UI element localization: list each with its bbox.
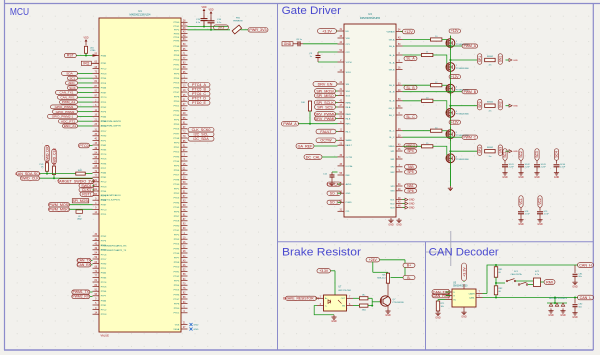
MCU U1 body <box>99 18 181 332</box>
FET column rail <box>449 36 451 187</box>
resistor R61 74K <box>387 271 389 274</box>
bulk gnd <box>539 218 541 220</box>
svg-text:SC1: SC1 <box>503 151 507 158</box>
gnd under C81 <box>574 280 576 282</box>
left lower labels <box>296 144 314 149</box>
svg-text:SL_A: SL_A <box>406 57 415 61</box>
gnd under R71 <box>437 311 439 313</box>
svg-text:PTF6: PTF6 <box>174 212 180 214</box>
svg-text:PTD7: PTD7 <box>174 175 180 177</box>
wire gate resistor to M2 gate <box>433 55 447 67</box>
svg-text:GND: GND <box>194 329 199 331</box>
svg-text:VDRAIN: VDRAIN <box>387 30 395 33</box>
wire R62 R63 join to gate <box>368 297 372 299</box>
svg-text:PTG1: PTG1 <box>173 26 179 28</box>
svg-text:GND: GND <box>513 106 518 108</box>
svg-text:RST: RST <box>67 54 74 58</box>
net label RMI <box>544 280 555 285</box>
power mosfet M2 <box>446 63 455 72</box>
series resistor R15 on SWD row <box>76 172 86 175</box>
net label SWDIO <box>79 183 94 188</box>
svg-text:MCU: MCU <box>10 7 29 18</box>
svg-text:PTH5: PTH5 <box>174 248 180 250</box>
svg-text:GPIO_PWM2: GPIO_PWM2 <box>56 110 75 114</box>
wire PWM_A long <box>298 123 338 125</box>
svg-text:GND: GND <box>560 314 566 317</box>
svg-text:PWM_B: PWM_B <box>464 90 477 94</box>
svg-text:CAS-220TA: CAS-220TA <box>511 273 523 276</box>
svg-text:GND: GND <box>537 223 543 226</box>
vertical net label SWD_DIO <box>45 145 49 162</box>
svg-text:PTG7: PTG7 <box>173 92 179 94</box>
svg-text:SC2: SC2 <box>519 151 523 158</box>
wire gate resistor to M4 gate <box>433 101 447 113</box>
vertical net label SC1 <box>503 149 507 161</box>
svg-text:PTG0: PTG0 <box>173 184 179 186</box>
svg-text:PTA4: PTA4 <box>101 115 107 118</box>
U1 bottom GND pins no-connect crosses <box>190 323 193 326</box>
svg-text:PTH1: PTH1 <box>174 64 180 66</box>
svg-text:SPI_MISO: SPI_MISO <box>316 94 333 98</box>
svg-text:SL_B: SL_B <box>389 101 395 103</box>
svg-text:SPI_MOSI: SPI_MOSI <box>316 89 333 93</box>
net label +3.3V brake <box>317 269 331 273</box>
snubber capacitor C43 <box>536 160 538 164</box>
svg-text:GND: GND <box>518 223 524 226</box>
svg-text:4.7uF: 4.7uF <box>544 214 550 216</box>
svg-text:VDD: VDD <box>346 38 351 40</box>
wire gate resistor to M3 gate <box>442 85 447 89</box>
svg-text:PTE2: PTE2 <box>174 193 180 195</box>
svg-text:PTC5_B: PTC5_B <box>192 88 206 92</box>
svg-text:PTD5: PTD5 <box>101 159 107 161</box>
wire inductor to RMI <box>541 281 545 283</box>
svg-text:CAN_SDA-SCL: CAN_SDA-SCL <box>15 172 41 176</box>
svg-text:SL_B: SL_B <box>406 86 415 90</box>
svg-text:EN: EN <box>346 31 349 33</box>
vertical sense label SN2 <box>498 99 502 110</box>
gate resistor R32 <box>422 53 433 56</box>
page frame right <box>592 4 594 351</box>
svg-text:PTF3: PTF3 <box>101 112 107 114</box>
gate wire to M4 <box>403 100 422 102</box>
box label GND left <box>282 42 293 46</box>
gate resistor R33 <box>431 84 442 87</box>
svg-text:MKE06Z128VLD4: MKE06Z128VLD4 <box>130 13 151 17</box>
svg-text:PTF8: PTF8 <box>174 97 180 99</box>
svg-text:GND: GND <box>409 203 415 206</box>
svg-text:DRV_EN: DRV_EN <box>318 82 333 86</box>
svg-text:PTGB020N06: PTGB020N06 <box>456 68 470 70</box>
svg-text:+12V: +12V <box>451 75 459 79</box>
gate wire to M3 <box>403 84 431 86</box>
svg-text:DCCAL: DCCAL <box>346 165 354 168</box>
stray horizontal graphic line in CAN title <box>426 251 451 253</box>
power mosfet M4 <box>446 108 455 117</box>
net label CAN_TX0 <box>432 290 450 295</box>
svg-text:I2C_SCL: I2C_SCL <box>194 133 209 137</box>
gnd under C12 <box>331 181 333 183</box>
vertical net label SC3 <box>535 149 539 161</box>
svg-text:PTF4: PTF4 <box>174 120 180 122</box>
svg-text:TAB: TAB <box>407 165 414 169</box>
shunt resistor SB3 <box>485 150 496 153</box>
svg-text:PTC0: PTC0 <box>101 209 107 211</box>
U7 internal LED symbol <box>328 300 331 304</box>
wire R81 to switch row <box>495 277 497 283</box>
pull-up resistor R21 <box>308 101 311 111</box>
wire shunt to gnd flag <box>506 150 510 152</box>
gate driver U3 body <box>344 24 396 217</box>
svg-text:CANL: CANL <box>469 296 475 299</box>
wire below M6 to gnd <box>449 165 451 186</box>
svg-text:GND: GND <box>518 176 524 179</box>
svg-text:PTG3: PTG3 <box>173 115 179 117</box>
svg-text:INLC: INLC <box>346 131 351 133</box>
wire +3.3V to U7 vcc <box>331 270 336 272</box>
svg-text:PTE4: PTE4 <box>101 191 107 193</box>
vertical net label SC4 <box>554 149 558 161</box>
svg-text:PTD7: PTD7 <box>101 131 107 133</box>
svg-text:SH_C: SH_C <box>389 115 395 117</box>
svg-text:PTE6/PWM-GMSTR: PTE6/PWM-GMSTR <box>101 121 121 123</box>
svg-text:SH_A: SH_A <box>389 45 395 48</box>
net label DRV_OCTW <box>316 138 336 143</box>
wire +3.3V down <box>463 281 465 282</box>
svg-text:GND: GND <box>572 316 578 319</box>
svg-text:VALUE: VALUE <box>101 333 110 337</box>
svg-text:GND: GND <box>331 320 337 323</box>
right net-label cluster I2C <box>188 128 214 133</box>
svg-text:CANH: CANH <box>469 292 475 295</box>
svg-text:PTG7: PTG7 <box>173 299 179 301</box>
svg-text:GPIO_PWM1: GPIO_PWM1 <box>55 105 74 109</box>
svg-text:PWM1_TX: PWM1_TX <box>73 290 90 294</box>
svg-text:SP6: SP6 <box>407 189 413 193</box>
svg-text:GND: GND <box>513 151 518 153</box>
svg-text:PTF1: PTF1 <box>101 140 107 142</box>
svg-text:PTD6/KBI0P6/UART2_RX: PTD6/KBI0P6/UART2_RX <box>101 244 127 247</box>
U1 left pins <box>93 55 100 57</box>
svg-text:PTG2: PTG2 <box>173 276 179 278</box>
svg-text:PTH2: PTH2 <box>174 110 180 112</box>
wire U7 out to R62 <box>353 297 359 299</box>
gate resistor R31 <box>431 38 442 41</box>
svg-text:SN65HVD230: SN65HVD230 <box>453 286 468 288</box>
svg-text:PTD1: PTD1 <box>174 106 180 108</box>
svg-text:PTE5: PTE5 <box>174 124 180 126</box>
svg-text:NA1: NA1 <box>407 184 414 188</box>
svg-text:PTF7: PTF7 <box>174 51 180 53</box>
bulk capacitor C20 <box>539 207 541 211</box>
capacitor C12 <box>330 174 335 176</box>
net label PWM_A <box>282 121 299 126</box>
svg-text:PTD1: PTD1 <box>174 313 180 315</box>
net label +3.3V to U3 EN <box>336 30 338 32</box>
svg-text:PTG8: PTG8 <box>173 138 179 140</box>
svg-text:2.2nF: 2.2nF <box>509 167 515 169</box>
U3 right pins <box>396 31 403 33</box>
svg-text:PWM_A: PWM_A <box>283 122 297 126</box>
vertical net label VC1 <box>519 196 523 208</box>
transistor Q7 <box>380 296 390 306</box>
svg-text:U3: U3 <box>368 12 372 16</box>
wire R61 to Q7 drain <box>387 283 389 296</box>
svg-text:PWM_MISO: PWM_MISO <box>49 208 70 212</box>
svg-text:GND: GND <box>409 199 415 202</box>
wire R71 to Rs pin <box>437 300 439 302</box>
svg-text:GND: GND <box>548 314 554 317</box>
left SPI net labels <box>315 89 336 94</box>
svg-text:PTH8: PTH8 <box>174 179 180 181</box>
svg-text:PTD1: PTD1 <box>101 214 107 216</box>
svg-text:PTE3: PTE3 <box>174 239 180 241</box>
wire switch to inductor <box>516 280 533 282</box>
svg-text:2.2nF: 2.2nF <box>560 167 566 169</box>
svg-text:DRV_PWML: DRV_PWML <box>315 117 336 121</box>
svg-text:PWM_MOSI: PWM_MOSI <box>49 203 69 207</box>
svg-text:GND: GND <box>194 324 199 326</box>
svg-text:GND: GND <box>385 314 391 317</box>
U3 bottom gnd symbols <box>390 218 392 220</box>
capacitor C9 <box>316 55 321 57</box>
resistor R71 10k <box>436 301 439 311</box>
svg-text:PTG4: PTG4 <box>173 161 179 163</box>
svg-text:PTH6: PTH6 <box>174 294 180 296</box>
snubber capacitor C41 <box>504 160 506 164</box>
svg-text:PTE8: PTE8 <box>174 55 180 57</box>
svg-text:DC_CAL: DC_CAL <box>306 155 321 159</box>
page frame left <box>4 0 6 350</box>
net label TARGET_SWDIO <box>93 180 94 182</box>
shunt resistor SB1 <box>485 58 496 61</box>
wire shunt to gnd flag <box>506 59 510 61</box>
svg-text:VSS: VSS <box>175 324 180 326</box>
power label +12V above M5 <box>449 120 461 124</box>
resistor R81 <box>495 265 497 267</box>
net label PHASE_C <box>449 136 451 138</box>
svg-text:OCTW: OCTW <box>320 139 332 143</box>
svg-text:PTH0: PTH0 <box>174 22 180 24</box>
gnd under U7 <box>333 315 335 317</box>
svg-text:PTD5: PTD5 <box>101 287 107 289</box>
svg-text:GH_C: GH_C <box>389 108 395 110</box>
svg-text:PTC4_A: PTC4_A <box>192 83 206 87</box>
svg-text:PTE0: PTE0 <box>174 308 180 310</box>
net label DRV_EN8305 <box>337 83 338 85</box>
section divider MCU | Gate Driver <box>277 4 279 351</box>
sense wire from U3 phase B <box>403 91 451 93</box>
svg-text:PTF1: PTF1 <box>101 268 107 270</box>
svg-text:PTE4: PTE4 <box>174 78 180 80</box>
svg-text:PTD5: PTD5 <box>174 290 180 292</box>
svg-text:PTE4: PTE4 <box>174 285 180 287</box>
svg-text:SO_1: SO_1 <box>330 191 339 195</box>
CAN IC U5 body <box>452 289 476 307</box>
vertical net label SC2 <box>519 149 523 161</box>
reset pull-up resistor R11 <box>85 46 88 53</box>
svg-text:SWD_CLK: SWD_CLK <box>21 177 39 181</box>
net label PHASE_B <box>449 91 451 93</box>
svg-text:ENC_A1: ENC_A1 <box>64 124 76 128</box>
wire +12V to VDRAIN pin <box>401 31 403 33</box>
svg-text:SDI: SDI <box>346 84 350 86</box>
svg-text:PTF7: PTF7 <box>101 296 107 298</box>
svg-text:PTC6: PTC6 <box>101 254 107 256</box>
wire VDD rail lower <box>188 29 231 31</box>
svg-text:SWD_CLK: SWD_CLK <box>52 147 56 165</box>
svg-text:SM002: SM002 <box>487 147 494 149</box>
svg-text:SDO: SDO <box>346 91 351 93</box>
net label B- <box>403 276 415 280</box>
svg-text:PTB.DN99D: PTB.DN99D <box>393 302 405 304</box>
svg-text:SPI_SCS: SPI_SCS <box>317 105 333 109</box>
capacitor C15 <box>201 18 208 20</box>
svg-text:CAN_RX1: CAN_RX1 <box>60 95 75 99</box>
capacitor C8 <box>297 41 299 46</box>
svg-text:PTE7: PTE7 <box>174 216 180 218</box>
svg-text:VC2: VC2 <box>538 198 542 205</box>
svg-text:VDD: VDD <box>201 6 206 9</box>
svg-text:I2C_SDA: I2C_SDA <box>193 137 209 141</box>
net label CAN_SDA_SCL <box>17 171 40 176</box>
svg-text:SH_B: SH_B <box>389 85 395 87</box>
svg-text:PTF7: PTF7 <box>101 168 107 170</box>
svg-text:PTF5: PTF5 <box>174 166 180 168</box>
resistor R82 <box>494 286 497 295</box>
svg-text:PTF0: PTF0 <box>174 143 180 145</box>
resistor R63 <box>359 304 368 307</box>
svg-text:PTD3: PTD3 <box>101 73 107 75</box>
svg-text:SP3: SP3 <box>478 147 482 153</box>
svg-text:GL_C: GL_C <box>389 131 395 133</box>
svg-text:B-: B- <box>407 276 410 280</box>
LED D2 <box>76 210 83 213</box>
vertical sense label SP2 <box>478 99 482 110</box>
svg-text:SM002: SM002 <box>487 56 494 58</box>
svg-text:10K: 10K <box>301 102 305 104</box>
gate wire to M2 <box>403 54 422 56</box>
gnd under Q7 <box>387 309 389 311</box>
svg-text:B+: B+ <box>407 264 411 268</box>
svg-text:IRQ: IRQ <box>83 62 89 66</box>
svg-text:PTG6: PTG6 <box>173 46 179 48</box>
snubber gnd <box>556 171 558 173</box>
wire gate resistor to M6 gate <box>433 146 447 158</box>
svg-text:ADC: ADC <box>68 81 75 85</box>
svg-text:PTG2: PTG2 <box>173 69 179 71</box>
svg-text:PTB1: PTB1 <box>101 177 107 179</box>
svg-text:PTF8: PTF8 <box>174 304 180 306</box>
svg-text:PWM2_RX: PWM2_RX <box>72 295 89 299</box>
svg-text:PTE2: PTE2 <box>101 107 107 109</box>
svg-text:PTB7: PTB7 <box>101 92 107 94</box>
wire brake input <box>316 297 319 299</box>
wire gate resistor to M1 gate <box>442 40 447 44</box>
svg-text:SCL: SCL <box>69 76 75 80</box>
net label PWM1_TX <box>72 290 90 294</box>
svg-text:3V3: 3V3 <box>218 26 225 30</box>
snubber gnd <box>504 171 506 173</box>
junction at VDD rail <box>203 26 205 28</box>
svg-text:GND: GND <box>396 223 402 226</box>
wire C8 to U3 <box>303 43 338 45</box>
wire CANH rail <box>483 293 488 295</box>
right net-label cluster GPIO <box>188 83 210 88</box>
gate wire to M5 <box>403 130 431 132</box>
U3 right mid net labels <box>404 56 417 60</box>
svg-text:+12V: +12V <box>451 29 459 33</box>
svg-text:PTC6_C: PTC6_C <box>192 92 206 96</box>
svg-text:PTB1: PTB1 <box>101 63 107 65</box>
svg-text:SN3: SN3 <box>499 147 503 154</box>
svg-text:DRV_PWMH: DRV_PWMH <box>314 112 336 116</box>
svg-text:PTE0: PTE0 <box>101 264 107 266</box>
svg-text:PWM_A: PWM_A <box>464 44 477 48</box>
svg-text:PTD7: PTD7 <box>101 259 107 261</box>
svg-text:PTE0: PTE0 <box>174 101 180 103</box>
svg-text:VCPH: VCPH <box>346 62 352 64</box>
net label PWM_MOSI <box>49 202 70 207</box>
net label +24V <box>366 258 380 262</box>
capacitor C81 <box>574 265 576 273</box>
svg-text:TARGET_SWDIO_3V3: TARGET_SWDIO_3V3 <box>57 179 95 183</box>
snubber capacitor C44 <box>556 160 558 164</box>
svg-text:PTGB020N06: PTGB020N06 <box>456 159 470 161</box>
svg-text:PTD8: PTD8 <box>174 221 180 223</box>
power symbol VDD 1 <box>203 11 205 15</box>
svg-text:GL_A: GL_A <box>389 54 395 57</box>
svg-text:PTC2: PTC2 <box>101 182 107 184</box>
bulk capacitor C19 <box>520 207 522 211</box>
svg-text:GL_B: GL_B <box>389 92 395 94</box>
svg-text:PTD3: PTD3 <box>101 186 107 188</box>
gate resistor R36 <box>422 145 433 148</box>
svg-text:INLA: INLA <box>346 106 351 109</box>
svg-text:GND: GND <box>502 176 508 179</box>
svg-text:GA_REF: GA_REF <box>298 144 313 148</box>
svg-text:PTH4: PTH4 <box>174 202 180 204</box>
net label PTC0 <box>89 145 93 147</box>
wire B+ to B- <box>404 267 406 275</box>
svg-text:PTD0: PTD0 <box>174 267 180 269</box>
svg-text:VREG: VREG <box>389 146 395 148</box>
power mosfet M5 <box>446 130 455 139</box>
svg-text:PTF3: PTF3 <box>174 281 180 283</box>
svg-text:SN2: SN2 <box>499 101 503 108</box>
wire gate resistor to M5 gate <box>442 131 447 135</box>
svg-text:SL_C: SL_C <box>389 137 395 139</box>
svg-text:GND: GND <box>572 285 578 288</box>
wire +24V rail right <box>380 259 406 261</box>
svg-text:SP2: SP2 <box>478 101 482 107</box>
svg-text:PTE6: PTE6 <box>101 163 107 165</box>
stray graphic line near CAN title <box>450 231 452 266</box>
vertical sense label SP3 <box>478 145 482 156</box>
svg-text:+3.3V: +3.3V <box>322 29 332 33</box>
svg-text:PTF5/ACMP1/ADC0: PTF5/ACMP1/ADC0 <box>101 194 122 197</box>
gnd under TVS <box>550 309 552 311</box>
svg-text:PTC2: PTC2 <box>101 69 107 71</box>
svg-text:2.2nF: 2.2nF <box>525 167 531 169</box>
power symbol VDD 2 <box>210 14 212 18</box>
net label B+ <box>403 263 415 267</box>
U1 right pins <box>181 21 188 23</box>
left net-label cluster UART/CAN/PWM <box>78 72 93 74</box>
svg-text:PTE7/PWM-CMPTR: PTE7/PWM-CMPTR <box>101 125 121 127</box>
svg-text:SB8-15.4: SB8-15.4 <box>377 277 386 279</box>
net label NRST <box>80 192 94 197</box>
